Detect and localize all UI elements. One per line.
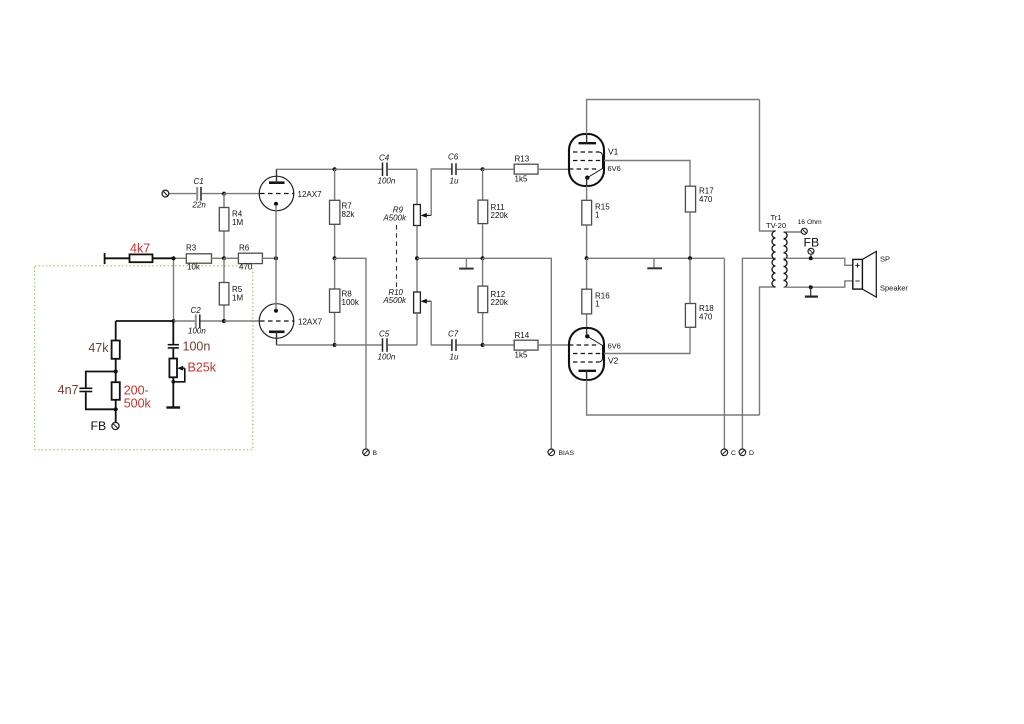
capacitor 4n7 (mod) (58, 372, 116, 410)
svg-text:FB: FB (804, 236, 820, 250)
svg-text:1M: 1M (232, 218, 243, 227)
svg-text:82k: 82k (342, 210, 356, 219)
svg-text:C2: C2 (191, 306, 202, 315)
tube V1 6V6 (569, 134, 621, 186)
svg-text:100n: 100n (188, 327, 206, 336)
svg-text:220k: 220k (491, 211, 509, 220)
svg-text:6V6: 6V6 (608, 164, 621, 173)
wire transformer primary bottom to bottom rail (760, 287, 776, 415)
tube U1b 12AX7 lower triode (259, 258, 322, 345)
resistor R5 1M (219, 258, 243, 321)
svg-text:1k5: 1k5 (515, 351, 528, 360)
resistor R11 220k (478, 169, 509, 258)
resistor R15 1 (582, 186, 610, 258)
wire input to C1 (169, 193, 197, 195)
resistor R12 220k (478, 258, 509, 345)
wire secondary bottom to speaker minus (784, 281, 853, 287)
terminal C (721, 449, 736, 457)
svg-text:TV-20: TV-20 (766, 221, 786, 230)
capacitor C7 1u (448, 330, 483, 362)
resistor R16 1 (582, 258, 610, 328)
terminal BIAS (548, 449, 574, 457)
resistor R7 82k (330, 169, 356, 258)
gang dashed link R9-R10 (396, 225, 398, 288)
svg-text:SP: SP (880, 255, 890, 264)
wire node to R6 (224, 257, 238, 259)
resistor 47k (mod) (88, 321, 119, 372)
node B25k wiper (171, 380, 175, 384)
wire secondary top to 16 Ohm terminal (784, 231, 802, 233)
svg-text:100n: 100n (183, 340, 211, 354)
wire U1b plate to C5 node (277, 344, 335, 346)
svg-text:1k5: 1k5 (515, 175, 528, 184)
potentiometer R9 A500k (382, 169, 451, 258)
svg-text:1: 1 (595, 300, 600, 309)
resistor R13 1k5 (483, 155, 569, 184)
node C2/R5/grid (222, 319, 226, 323)
wire pots junction to ground (417, 258, 466, 268)
node R8/C5/plate (333, 343, 337, 347)
svg-text:10k: 10k (187, 263, 201, 272)
svg-text:4k7: 4k7 (130, 242, 150, 256)
svg-text:1M: 1M (232, 294, 243, 303)
node C7/R12/R14 (481, 343, 485, 347)
resistor R3 10k (186, 244, 224, 272)
svg-text:R14: R14 (515, 331, 530, 340)
resistor R17 470 (685, 186, 714, 258)
wire V1 plate to top rail (587, 100, 760, 135)
node 200-500k/4n7/FB (114, 407, 118, 411)
wire node A to U1a grid (224, 193, 260, 195)
svg-text:C4: C4 (379, 154, 390, 163)
ground G3 (805, 287, 818, 296)
node C2 left (mod tap) (172, 319, 176, 323)
svg-text:470: 470 (239, 263, 253, 272)
node 4k7/R3 (171, 256, 175, 260)
wire cathode row to C tap (587, 257, 725, 259)
wire 4k7 node to R3 (174, 257, 187, 259)
wire secondary centre tap to speaker plus (784, 258, 853, 265)
capacitor C6 1u (448, 153, 483, 186)
svg-text:220k: 220k (491, 298, 509, 307)
svg-text:12AX7: 12AX7 (298, 190, 323, 199)
terminal D (739, 449, 754, 457)
wire D riser to primary centre tap (742, 258, 775, 449)
svg-text:100n: 100n (378, 177, 396, 186)
svg-text:C1: C1 (194, 177, 204, 186)
svg-text:12AX7: 12AX7 (298, 318, 323, 327)
wire V1 screen to R17 (604, 161, 690, 187)
svg-text:C: C (731, 450, 736, 457)
svg-text:V1: V1 (608, 147, 619, 157)
svg-text:100k: 100k (342, 298, 360, 307)
resistor R4 1M (219, 194, 243, 259)
resistor 200-500k (mod) (112, 372, 152, 411)
node R15/R16 (585, 256, 589, 260)
svg-text:Speaker: Speaker (880, 284, 908, 293)
node cathodes/R6 (274, 256, 278, 260)
svg-text:A500k: A500k (382, 214, 407, 223)
node pots junction (415, 256, 419, 260)
svg-text:R6: R6 (239, 244, 250, 253)
resistor 4k7 (mod) (130, 242, 174, 263)
svg-text:C7: C7 (448, 330, 459, 339)
svg-text:1: 1 (595, 211, 600, 220)
resistor R8 100k (330, 258, 360, 345)
svg-text:R13: R13 (515, 155, 530, 164)
resistor R14 1k5 (483, 331, 569, 360)
svg-text:D: D (749, 450, 754, 457)
terminal FB (mod) (91, 409, 120, 433)
node 47k/4n7/200-500k (114, 369, 118, 373)
svg-text:BIAS: BIAS (559, 450, 575, 457)
wire mod tap horizontal (116, 320, 174, 322)
wire mod tick to 4k7 (105, 253, 130, 264)
terminal B (363, 449, 378, 457)
svg-text:200-: 200- (124, 384, 149, 398)
svg-text:47k: 47k (88, 341, 109, 355)
wire B drop (335, 258, 366, 449)
terminal 16 Ohm (798, 219, 823, 234)
svg-text:B: B (373, 450, 378, 457)
capacitor C2 100n (174, 306, 225, 336)
svg-text:470: 470 (699, 313, 713, 322)
node secondary bottom ground (809, 285, 813, 289)
tube V2 6V6 (569, 328, 621, 380)
capacitor C1 (192, 177, 207, 210)
svg-text:C6: C6 (448, 153, 459, 162)
wire BIAS drop (483, 258, 552, 449)
wire top rail to transformer primary top (760, 100, 776, 232)
wire node to U1b grid (224, 320, 260, 322)
svg-text:6V6: 6V6 (608, 342, 621, 351)
svg-text:C5: C5 (379, 330, 390, 339)
resistor R6 470 (238, 244, 276, 272)
resistor R18 470 (685, 258, 714, 327)
node R3/R4/R5/R6 (222, 256, 226, 260)
potentiometer B25k (mod) (169, 359, 216, 408)
node C4/R7/plate (333, 167, 337, 171)
svg-text:100n: 100n (378, 353, 396, 362)
svg-text:1u: 1u (450, 177, 459, 186)
potentiometer R10 A500k (382, 258, 451, 345)
node FB/secondary (809, 256, 813, 260)
svg-text:470: 470 (699, 195, 713, 204)
svg-text:A500k: A500k (382, 296, 407, 305)
wire 4k7 node down to C2 node (173, 258, 175, 321)
svg-text:R3: R3 (186, 244, 197, 253)
node R17/R18 (688, 256, 692, 260)
node C6/R11/R13 (481, 167, 485, 171)
wire U1a plate to C4 node (277, 168, 335, 170)
svg-text:B25k: B25k (188, 361, 217, 375)
terminal J1 input (162, 190, 169, 197)
node A junction C1/R4/grid (222, 192, 226, 196)
svg-text:FB: FB (91, 419, 107, 433)
speaker SP (853, 251, 909, 297)
feedback mod dotted green box (35, 266, 253, 450)
wire C drop (723, 258, 725, 449)
wire V2 screen to R18 (604, 327, 690, 353)
svg-text:4n7: 4n7 (58, 383, 79, 397)
capacitor 100n (mod) (168, 321, 211, 359)
wire V2 plate to bottom rail (587, 380, 760, 415)
capacitor C5 100n (335, 330, 417, 362)
node R7/R8/B wire (333, 256, 337, 260)
ground G4 (166, 406, 180, 408)
svg-text:500k: 500k (124, 397, 152, 411)
transformer Tr1 TV-20 (766, 213, 787, 287)
capacitor C4 100n (335, 154, 417, 186)
tube U1a 12AX7 upper triode (259, 169, 322, 258)
node R11/R12/BIAS (481, 256, 485, 260)
wire C1 to node A (202, 193, 224, 195)
svg-text:22n: 22n (192, 201, 207, 210)
ground G1 (459, 268, 474, 270)
wire ground tap to R11 node (466, 257, 482, 259)
svg-text:16 Ohm: 16 Ohm (798, 219, 823, 226)
ground G2 (647, 258, 662, 268)
terminal FB at transformer (804, 236, 820, 259)
svg-text:V2: V2 (608, 356, 619, 366)
svg-text:1u: 1u (450, 353, 459, 362)
